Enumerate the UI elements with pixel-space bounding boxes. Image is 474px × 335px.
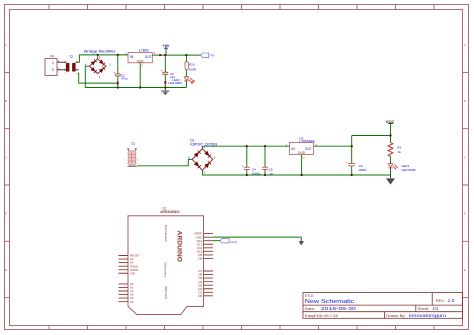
svg-text:D0: D0 [198,294,202,298]
svg-text:B: B [5,99,7,103]
svg-text:+: + [161,69,163,73]
svg-text:2018-09-30: 2018-09-30 [321,306,357,311]
svg-text:L7809: L7809 [139,49,149,53]
svg-text:+: + [242,165,244,169]
svg-text:New Schematic: New Schematic [305,299,355,305]
svg-text:Date:: Date: [305,306,315,311]
svg-text:R1: R1 [397,145,401,149]
svg-text:OUT: OUT [145,55,152,59]
svg-text:T1: T1 [131,142,135,146]
svg-text:innovatorsguru: innovatorsguru [409,313,447,318]
svg-text:100R: 100R [189,67,197,71]
svg-text:Duemilanove: Duemilanove [164,225,168,243]
svg-text:GND: GND [298,151,306,155]
svg-text:E: E [5,268,7,272]
svg-text:EasyEDA V5.7.26: EasyEDA V5.7.26 [305,313,339,318]
svg-text:A: A [5,43,7,47]
svg-text:1000u: 1000u [252,171,261,175]
svg-text:470u: 470u [121,77,128,81]
svg-text:LED-5MM: LED-5MM [168,81,182,85]
svg-text:OUT: OUT [305,147,312,151]
svg-text:R10: R10 [189,63,195,67]
svg-text:2: 2 [52,68,54,72]
svg-text:E: E [464,268,466,272]
svg-text:1/1: 1/1 [433,306,440,311]
svg-text:Drawn By:: Drawn By: [386,313,405,318]
svg-text:1: 1 [52,61,54,65]
svg-text:A5: A5 [130,300,134,304]
svg-text:T2: T2 [69,55,73,59]
svg-text:+: + [113,71,115,75]
svg-text:Sheet:: Sheet: [418,306,430,311]
svg-text:Electronics: Electronics [163,262,167,277]
svg-text:1k: 1k [398,150,402,154]
svg-text:LED1: LED1 [230,240,238,244]
svg-text:TITLE:: TITLE: [305,294,315,298]
svg-text:Bridge Rectifier: Bridge Rectifier [84,50,116,54]
svg-text:Vin: Vin [210,53,215,57]
svg-text:B: B [464,99,466,103]
svg-text:VIN: VIN [130,271,135,275]
svg-text:1u: 1u [269,171,273,175]
svg-text:LED-5MM: LED-5MM [402,168,416,172]
svg-text:ARDUINO: ARDUINO [160,210,180,214]
svg-text:Vin: Vin [50,54,55,58]
svg-text:ARDUINO: ARDUINO [175,231,182,262]
svg-text:D8: D8 [198,257,202,261]
svg-text:+: + [346,161,348,165]
svg-text:REV.: REV. [436,298,445,303]
svg-text:1000u: 1000u [358,168,367,172]
svg-text:1.0: 1.0 [448,298,456,303]
svg-text:A: A [464,43,466,47]
svg-text:UNO (R3): UNO (R3) [164,286,168,299]
